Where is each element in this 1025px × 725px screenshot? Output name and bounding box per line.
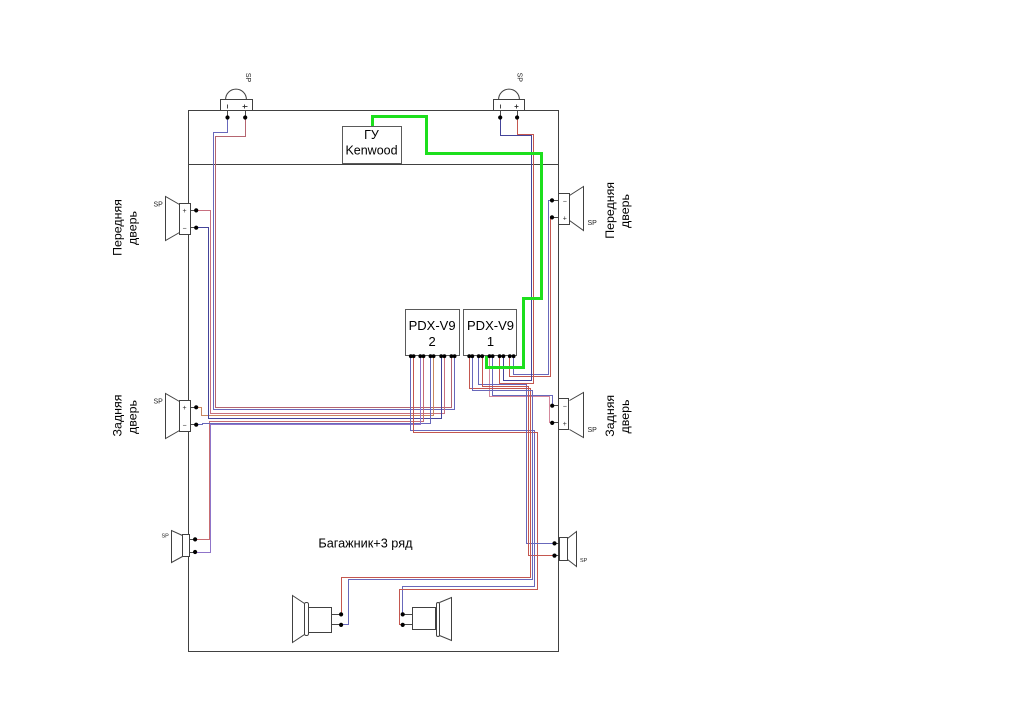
svg-text:1: 1 [487,334,494,349]
svg-text:SP: SP [154,398,164,405]
svg-text:Kenwood: Kenwood [345,143,397,157]
svg-text:+: + [183,208,187,215]
svg-text:Передняя: Передняя [603,182,617,239]
svg-text:−: − [183,226,187,233]
svg-text:Передняя: Передняя [111,199,125,256]
svg-text:+: + [563,215,567,222]
svg-text:Багажник+3 ряд: Багажник+3 ряд [318,537,413,551]
svg-text:дверь: дверь [126,400,140,434]
svg-text:дверь: дверь [126,211,140,245]
svg-text:SP: SP [244,73,251,83]
svg-text:−: − [563,404,567,411]
svg-text:+: + [183,405,187,412]
svg-text:SP: SP [588,427,598,434]
svg-text:Задняя: Задняя [603,395,617,437]
svg-text:−: − [563,198,567,205]
svg-text:SP: SP [580,558,588,564]
svg-text:Задняя: Задняя [111,395,125,437]
svg-text:ГУ: ГУ [364,128,379,142]
svg-text:SP: SP [154,202,164,209]
svg-text:−: − [183,423,187,430]
svg-text:SP: SP [162,534,170,540]
svg-text:2: 2 [428,334,435,349]
svg-text:PDX-V9: PDX-V9 [467,318,514,333]
svg-text:SP: SP [588,220,598,227]
svg-text:дверь: дверь [618,194,632,228]
svg-text:PDX-V9: PDX-V9 [409,318,456,333]
svg-text:SP: SP [516,73,523,83]
svg-text:+: + [563,421,567,428]
svg-text:дверь: дверь [618,400,632,434]
